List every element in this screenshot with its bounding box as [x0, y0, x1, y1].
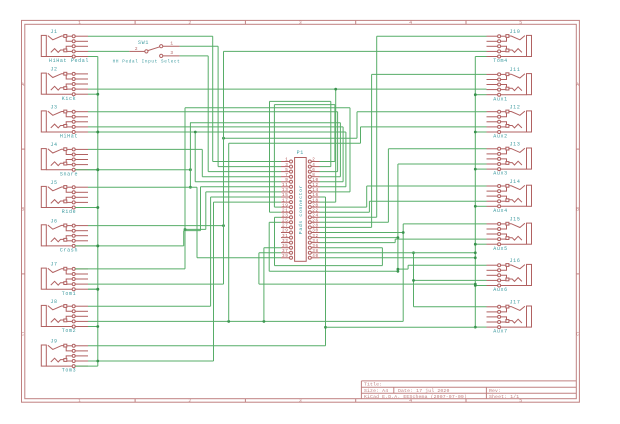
svg-text:Aux4: Aux4 — [493, 208, 508, 214]
svg-text:J11: J11 — [510, 67, 521, 73]
title block — [361, 381, 576, 400]
wire J16 sleeve to bus — [475, 285, 486, 287]
wire J7 sleeve to bus — [88, 288, 98, 290]
wire wrap B P1 pin 19 to pin 2 — [274, 105, 335, 208]
svg-text:HH Pedal Input Select: HH Pedal Input Select — [113, 60, 181, 65]
svg-text:3: 3 — [170, 51, 173, 56]
wire J11 tip to P1 pin 28 — [320, 74, 487, 227]
svg-text:5: 5 — [519, 398, 523, 404]
junction J8 ring wrap G tie — [227, 320, 230, 323]
wire P1 pin 38 to right bus — [320, 252, 476, 254]
wire J4 tip to P1 pin 7 — [88, 149, 281, 176]
wire J3 sleeve to bus — [88, 131, 98, 133]
junction J16 sleeve bus — [474, 284, 477, 287]
wire J14 tip to P1 pin 20 — [320, 186, 487, 207]
svg-text:4: 4 — [409, 20, 413, 26]
jack connector J13 — [487, 147, 532, 170]
jack connector J4 — [41, 148, 88, 171]
junction J3 sleeve bus — [96, 131, 99, 134]
wire J2 sleeve to bus — [88, 93, 98, 95]
svg-text:A: A — [21, 82, 25, 88]
jack connector J3 — [41, 110, 88, 133]
wire J1 sleeve to bus — [88, 56, 98, 58]
wire J4 sleeve to bus and wrap riser — [75, 169, 190, 171]
svg-text:J6: J6 — [50, 218, 57, 224]
junction J16 ring riser — [412, 279, 415, 282]
wire right bus return across bottom — [326, 326, 476, 328]
svg-text:3: 3 — [299, 20, 303, 26]
wire J1 tip to P1 pin 1 — [88, 36, 281, 161]
wire J5 sleeve to bus — [88, 207, 98, 209]
junction J8 sleeve bus — [96, 325, 99, 328]
svg-text:Aux5: Aux5 — [493, 246, 508, 252]
junction J9 ring bus crossing — [96, 360, 99, 363]
svg-text:Tom4: Tom4 — [493, 58, 508, 64]
svg-text:Aux6: Aux6 — [493, 287, 508, 293]
junction J7 sleeve bus — [96, 288, 99, 291]
wire J1 ring to SW1 pin 2 — [88, 50, 129, 52]
wire J7 tip up the wrap C riser with branch to P1 pin 13 — [75, 192, 281, 269]
junction pin25 jog to J13 ring riser — [397, 270, 400, 273]
junction J11 sleeve bus — [474, 93, 477, 96]
wire J15 sleeve to bus — [475, 243, 486, 245]
svg-text:Ride: Ride — [62, 209, 77, 215]
wire J13 sleeve to bus — [475, 168, 486, 170]
junction J17 riser top — [412, 251, 415, 254]
wire J17 tip from riser — [414, 306, 487, 308]
jack connector J10 — [487, 35, 532, 58]
junction J8 ring r18 feeder tie — [263, 320, 266, 323]
svg-text:J12: J12 — [510, 105, 521, 111]
junction J14 sleeve bus — [474, 205, 477, 208]
jack connector J15 — [487, 222, 532, 245]
wire J16 ring to P1 pin 38 riser — [414, 253, 487, 307]
svg-text:2: 2 — [135, 47, 138, 52]
wire wrap F tee to J12 tip — [224, 112, 487, 139]
wire J5 sleeve to bus — [75, 207, 98, 209]
svg-text:Sheet: 1/1: Sheet: 1/1 — [489, 394, 519, 400]
jack connector J2 — [41, 72, 88, 95]
svg-text:J17: J17 — [510, 300, 521, 306]
junction J15 tip riser — [402, 231, 405, 234]
svg-text:Tom3: Tom3 — [62, 368, 77, 374]
wire J3 tip to P1 pin 6 — [88, 112, 338, 172]
jack connector J1 — [41, 35, 88, 58]
svg-text:2: 2 — [188, 398, 192, 404]
svg-text:P1: P1 — [297, 150, 304, 156]
svg-text:B: B — [21, 207, 25, 213]
wire wrap D riser x190 down to J5 tip — [189, 123, 191, 188]
wire J14 ring to P1 pin 22 — [320, 201, 487, 212]
svg-text:J4: J4 — [50, 142, 57, 148]
junction J13 sleeve bus — [474, 168, 477, 171]
svg-text:Rev:: Rev: — [489, 388, 501, 394]
wire J8 tip riser to P1 pin 15 — [88, 197, 281, 306]
svg-text:40: 40 — [312, 254, 318, 259]
wire J12 sleeve to bus — [475, 131, 486, 133]
wire P1 pin 25 under connector jog — [269, 222, 398, 271]
junction pin 38 right bus — [474, 251, 477, 254]
svg-text:J7: J7 — [50, 262, 57, 268]
junction J16 tip jog — [397, 268, 400, 271]
wire J6 sleeve to bus — [88, 245, 98, 247]
svg-text:Title:: Title: — [364, 382, 382, 388]
wire wrap G J8 ring to J12 ring — [229, 127, 487, 322]
svg-text:J16: J16 — [510, 258, 521, 264]
jack connector J16 — [487, 264, 532, 287]
wire J15 tip tee on J8 ring riser — [403, 223, 486, 225]
wire J17 sleeve to bus — [475, 326, 486, 328]
junction J2 sleeve bus — [96, 93, 99, 96]
junction pin 40 right bus — [474, 256, 477, 259]
svg-text:B: B — [576, 207, 580, 213]
wire J3 sleeve run to P1 pin 12 and pin 9 — [88, 132, 346, 187]
wire J6 sleeve zigzag to P1 pin 11 — [75, 187, 281, 246]
jack connector J7 — [41, 267, 88, 290]
wire J10 tip to P1 pin 24 — [320, 36, 487, 217]
wire J8 ring riser to P1 pin 30 — [320, 224, 404, 322]
wire J9 ring to P1 pin 17 — [88, 202, 281, 361]
svg-text:J8: J8 — [50, 299, 57, 305]
svg-text:HiHat Pedal: HiHat Pedal — [49, 58, 89, 64]
wire J16 tip jog to J13 ring riser — [398, 265, 487, 269]
switch SW1 HH Pedal Input Select — [129, 45, 179, 58]
junction J7 sleeve bus — [96, 288, 99, 291]
jack connector J6 — [41, 224, 88, 247]
junction J4 sleeve bus — [96, 168, 99, 171]
svg-text:1: 1 — [78, 398, 82, 404]
svg-text:Aux2: Aux2 — [493, 134, 508, 140]
svg-text:J1: J1 — [50, 29, 57, 35]
junction J4 sleeve riser — [189, 168, 192, 171]
svg-text:Date: 17 jul 2020: Date: 17 jul 2020 — [398, 388, 450, 394]
wire J10 sleeve to bus — [475, 56, 486, 58]
svg-text:Aux7: Aux7 — [493, 329, 508, 335]
jack connector J9 — [41, 344, 88, 367]
wire J7 sleeve to bus — [88, 288, 98, 290]
wire J8 sleeve to bus — [88, 326, 98, 328]
svg-text:J5: J5 — [50, 180, 57, 186]
jack connector J17 — [487, 305, 532, 328]
svg-text:5: 5 — [519, 20, 523, 26]
svg-text:1: 1 — [170, 42, 173, 47]
ground bus left vertical — [97, 57, 99, 367]
junction wrap D riser on J5 tip — [189, 186, 192, 189]
junction J12 sleeve bus — [474, 131, 477, 134]
svg-text:SW1: SW1 — [138, 40, 149, 46]
wire SW1 pin 3 to P1 pin 5 — [180, 56, 281, 172]
wire J2 ring J11 ring shared net to P1 pin 18 — [88, 89, 487, 202]
svg-text:Pads connector: Pads connector — [298, 185, 304, 234]
wire wrap C J7 tip to P1 pin 14 — [185, 108, 350, 269]
svg-text:J9: J9 — [50, 339, 57, 345]
svg-text:HiHat: HiHat — [60, 134, 78, 140]
svg-text:Snare: Snare — [60, 171, 78, 177]
wire J15 ring to P1 pin 34 — [320, 239, 487, 243]
svg-text:Aux3: Aux3 — [493, 171, 508, 177]
junction pin 37 ground right bus — [474, 283, 477, 286]
wire J13 ring to P1 pin 32 — [320, 164, 487, 271]
junction J3 sleeve descender — [194, 131, 197, 134]
junction J6 tip tee — [222, 224, 225, 227]
wire J8 ring long run under P1 — [88, 320, 403, 322]
jack connector J14 — [487, 184, 532, 207]
ground bus right vertical — [474, 57, 476, 328]
svg-text:1: 1 — [78, 20, 82, 26]
junction J5 sleeve bus — [96, 206, 99, 209]
wire J7 ring to shared riser — [88, 283, 224, 285]
svg-text:J14: J14 — [510, 179, 521, 185]
wire SW1 pin 1 to P1 pin 3 — [180, 46, 281, 166]
svg-text:Tom1: Tom1 — [62, 291, 77, 297]
svg-text:Crash: Crash — [60, 248, 78, 254]
P1 left pin numbers odd 1-39 — [282, 158, 288, 259]
wire J5 tip to P1 pin 39 — [88, 187, 281, 258]
wire J6 tip tee on shared riser — [88, 225, 224, 227]
junction J13 ring pin 32 tee — [397, 236, 400, 239]
junction J17 sleeve bus — [474, 326, 477, 329]
svg-text:A: A — [576, 82, 580, 88]
junction J5 sleeve bus — [96, 206, 99, 209]
svg-text:C: C — [576, 332, 580, 338]
wire J3 ring to P1 pin 10 — [88, 127, 343, 182]
svg-text:C: C — [21, 332, 25, 338]
jack connector J8 — [41, 305, 88, 328]
junction J7 tip branch — [184, 228, 187, 231]
junction J3 sleeve bus — [96, 131, 99, 134]
wire P1 pin 35 feeder from J8 ring — [264, 248, 281, 322]
svg-text:J2: J2 — [50, 67, 57, 73]
jack connector J5 — [41, 186, 88, 209]
jack connector J12 — [487, 110, 532, 133]
connector P1 Pads connector — [281, 158, 320, 262]
wire wrap A P1 pin 21 to pin 4 — [270, 101, 331, 212]
svg-text:J15: J15 — [510, 217, 521, 223]
wire left bus bottom into J9 sleeve — [75, 365, 98, 367]
svg-text:J13: J13 — [510, 142, 521, 148]
svg-text:KiCad E.D.A. EESchema (2007-0: KiCad E.D.A. EESchema (2007-07-09) — [364, 394, 467, 400]
wire J11 sleeve to bus — [475, 94, 486, 96]
wire J9 tip to right bus return riser — [88, 197, 326, 346]
junction J6 sleeve bus — [96, 245, 99, 248]
svg-text:Aux1: Aux1 — [493, 96, 508, 102]
wire P1 pin 23 under connector to pin 36 jog — [275, 217, 383, 265]
junction J4 sleeve bus — [96, 168, 99, 171]
wire J4 sleeve to bus — [88, 169, 98, 171]
svg-text:Kick: Kick — [62, 96, 77, 102]
svg-text:J3: J3 — [50, 105, 57, 111]
wire J10 ring crossing riser down to J7 ring — [224, 51, 487, 284]
junction right bus return — [324, 326, 327, 329]
wire J14 sleeve to bus — [475, 205, 486, 207]
svg-text:2: 2 — [188, 20, 192, 26]
svg-text:39: 39 — [282, 254, 288, 259]
junction wrap F riser tee — [222, 137, 225, 140]
svg-text:Size: A4: Size: A4 — [364, 388, 388, 394]
jack connector J11 — [487, 73, 532, 96]
svg-text:Tom2: Tom2 — [62, 328, 77, 334]
wire J13 tip to P1 pin 26 — [320, 149, 487, 223]
wire wrap D ground riser to pin 8 — [190, 123, 340, 177]
svg-text:J10: J10 — [510, 29, 521, 35]
junction J2 ring riser — [334, 88, 337, 91]
P1 right pin numbers even 2-40 — [312, 158, 318, 259]
wire P1 pin 37 feeder to right bus — [259, 253, 475, 284]
svg-text:3: 3 — [299, 398, 303, 404]
junction J6 sleeve bus — [96, 245, 99, 248]
wire P1 pin 40 to right bus — [320, 257, 476, 259]
junction J15 sleeve bus — [474, 243, 477, 246]
